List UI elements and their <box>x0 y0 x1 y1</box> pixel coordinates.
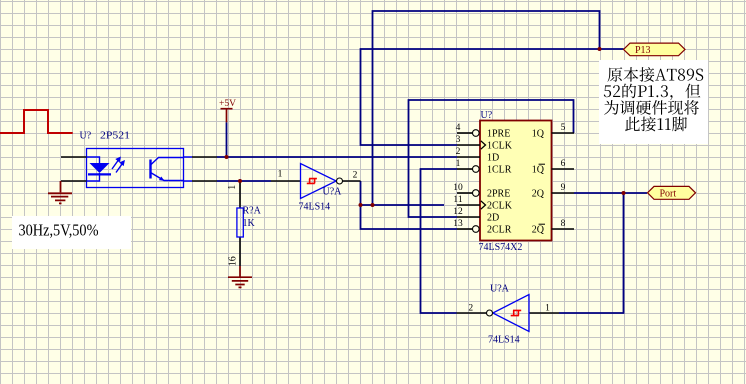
chip pin 9 label <box>561 183 566 193</box>
svg-text:1: 1 <box>278 170 283 180</box>
wire inverter2 output to 1CLR <box>421 169 458 313</box>
svg-text:9: 9 <box>561 183 566 193</box>
annotation 30Hz,5V,50% <box>12 216 131 249</box>
svg-text:2: 2 <box>468 304 473 314</box>
svg-text:1: 1 <box>227 185 238 190</box>
wire P13 net to 1CLK <box>361 49 624 145</box>
ground (resistor) <box>228 266 252 287</box>
svg-text:8: 8 <box>561 219 566 229</box>
chip value 74LS74X2 <box>479 242 523 253</box>
IC U? 74LS74X2 <box>457 121 574 241</box>
wire +5V stem to 1D rail <box>226 122 228 157</box>
svg-text:6: 6 <box>561 159 566 169</box>
junction inverter1 output / 2CLK <box>359 203 363 207</box>
svg-text:11: 11 <box>453 195 462 205</box>
resistor R?A 1K <box>237 181 262 266</box>
chip pin 4 label <box>456 123 461 133</box>
junction resistor R?A / inverter input <box>238 179 242 183</box>
svg-text:2D: 2D <box>487 213 499 224</box>
inverter U?A 74LS14 (bottom, mirrored) <box>457 284 560 346</box>
chip pin 2 label <box>456 147 461 157</box>
svg-text:1K: 1K <box>243 218 256 229</box>
pin 1 label (inverter1 input) <box>278 170 283 180</box>
svg-text:Port: Port <box>660 189 677 200</box>
chip pin 5 label <box>561 123 566 133</box>
svg-text:13: 13 <box>453 219 463 229</box>
chip pin 1 label <box>456 159 461 169</box>
pulse source waveform <box>0 110 73 133</box>
svg-text:1: 1 <box>456 159 461 169</box>
svg-text:U?A: U?A <box>323 187 343 198</box>
svg-text:30Hz,5V,50%: 30Hz,5V,50% <box>19 221 99 240</box>
svg-text:1Q: 1Q <box>532 129 545 140</box>
svg-text:74LS14: 74LS14 <box>488 335 520 346</box>
wire to 2CLR <box>361 205 458 229</box>
power +5V <box>219 99 236 123</box>
svg-text:U?: U? <box>80 131 92 142</box>
optocoupler U? 2P521 <box>61 131 217 188</box>
chip pin 11 label <box>453 195 462 205</box>
chip pin 8 label <box>561 219 566 229</box>
svg-text:4: 4 <box>456 123 461 133</box>
chip pin 12 label <box>453 207 463 217</box>
junction +5V / 1D rail <box>225 155 229 159</box>
chip pin 6 label <box>561 159 566 169</box>
svg-text:5: 5 <box>561 123 566 133</box>
svg-text:2: 2 <box>353 171 358 181</box>
svg-text:U?: U? <box>481 110 493 121</box>
pin 1 label (inverter2 input) <box>545 304 550 314</box>
ground (LED cathode) <box>48 181 72 203</box>
chip pin 10 label <box>453 183 463 193</box>
wire Port down to inverter2 input <box>559 193 624 313</box>
svg-text:3: 3 <box>456 135 461 145</box>
svg-text:P13: P13 <box>635 45 651 56</box>
svg-text:+5V: +5V <box>219 99 236 109</box>
svg-text:1D: 1D <box>487 153 499 164</box>
op-amp inverter U?A 74LS14 (top) <box>271 164 361 213</box>
wire P13 branch over top to 2CLK <box>373 11 600 205</box>
svg-text:R?A: R?A <box>243 206 262 217</box>
svg-text:74LS74X2: 74LS74X2 <box>479 242 523 253</box>
junction P13 branch / 2CLK <box>371 203 375 207</box>
svg-text:2Q: 2Q <box>532 189 545 200</box>
wire opto emitter to inverter input <box>217 180 271 182</box>
svg-text:1CLK: 1CLK <box>487 141 513 152</box>
svg-text:1CLR: 1CLR <box>487 165 512 176</box>
svg-text:2PRE: 2PRE <box>487 189 510 200</box>
wire 1Q to 2D <box>409 100 574 217</box>
wire 2CLK <box>361 204 445 206</box>
wire 2Q to Port <box>574 192 647 194</box>
power port P13 <box>624 43 686 56</box>
chip pin 3 label <box>456 135 461 145</box>
svg-text:10: 10 <box>453 183 463 193</box>
pin 2 label (inverter2 output) <box>468 304 473 314</box>
wire 1D rail (opto collector to pin 2) <box>217 156 457 158</box>
svg-text:1PRE: 1PRE <box>487 129 510 140</box>
svg-text:16: 16 <box>228 256 239 266</box>
svg-text:2CLK: 2CLK <box>487 201 513 212</box>
svg-text:U?A: U?A <box>490 284 510 295</box>
pin 2 label (inverter1 output) <box>353 171 358 181</box>
resistor pin number 1 (rotated) <box>227 185 238 190</box>
svg-text:2Q: 2Q <box>532 225 545 236</box>
chip designator U? <box>481 110 493 121</box>
svg-text:1Q: 1Q <box>532 165 545 176</box>
svg-text:2P521: 2P521 <box>100 131 130 142</box>
junction 2Q / Port <box>622 191 626 195</box>
svg-text:1: 1 <box>545 304 550 314</box>
annotation Chinese note <box>599 60 708 144</box>
svg-text:74LS14: 74LS14 <box>299 202 331 213</box>
power port Port <box>648 186 696 199</box>
svg-text:12: 12 <box>453 207 463 217</box>
svg-text:2CLR: 2CLR <box>487 225 512 236</box>
wire inverter1 output down to 2CLK <box>360 181 362 205</box>
resistor pin number 16 (rotated) <box>228 256 239 266</box>
svg-text:2: 2 <box>456 147 461 157</box>
chip pin 13 label <box>453 219 463 229</box>
junction P13 net <box>598 47 602 51</box>
